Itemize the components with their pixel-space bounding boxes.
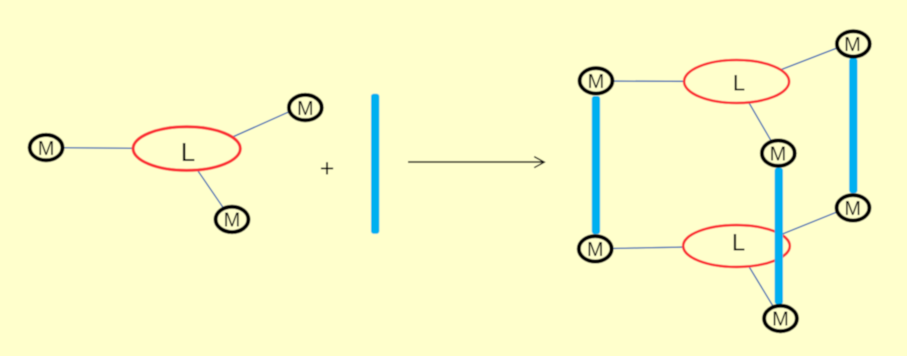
pillar bar P1 (M4-M8)	[592, 96, 600, 234]
metal node M2	[289, 95, 322, 120]
svg-text:M: M	[224, 210, 241, 232]
ligand ellipse L1	[133, 127, 240, 171]
bond L3-M7	[737, 206, 854, 253]
reaction arrow	[408, 157, 544, 168]
svg-text:M: M	[297, 98, 314, 120]
bond M4-L2	[596, 80, 737, 83]
metal node M9	[764, 306, 797, 331]
svg-text:L: L	[181, 137, 195, 167]
ligand ellipse L3	[683, 225, 790, 267]
svg-text:M: M	[844, 34, 861, 56]
metal node M5	[837, 31, 870, 56]
pillar bar P2 (M5-M7)	[849, 58, 857, 193]
svg-text:M: M	[587, 239, 604, 261]
svg-text:L: L	[733, 70, 745, 95]
bond M1-L1	[46, 147, 187, 150]
metal node M4	[580, 68, 613, 93]
metal node M1	[30, 135, 63, 160]
bond M8-L3	[595, 246, 736, 249]
pillar bar P3 (M6-M9)	[775, 168, 783, 304]
metal node M6	[762, 141, 795, 166]
ligand ellipse L2	[684, 60, 789, 103]
free pillar ligand bar	[371, 94, 379, 234]
bond L3-M9	[737, 246, 781, 319]
svg-text:M: M	[588, 71, 605, 93]
bond L2-M6	[737, 82, 779, 154]
svg-text:M: M	[844, 198, 861, 220]
bond L1-M2	[187, 105, 306, 158]
svg-text:M: M	[772, 309, 789, 331]
metal node M3	[216, 207, 249, 232]
bond L2-M5	[737, 42, 854, 87]
svg-text:L: L	[732, 230, 745, 257]
bond L1-M3	[187, 155, 232, 221]
metal node M7	[837, 195, 870, 220]
svg-text:M: M	[770, 143, 787, 165]
svg-text:M: M	[38, 138, 55, 160]
svg-text:+: +	[320, 155, 335, 183]
metal node M8	[579, 236, 612, 261]
